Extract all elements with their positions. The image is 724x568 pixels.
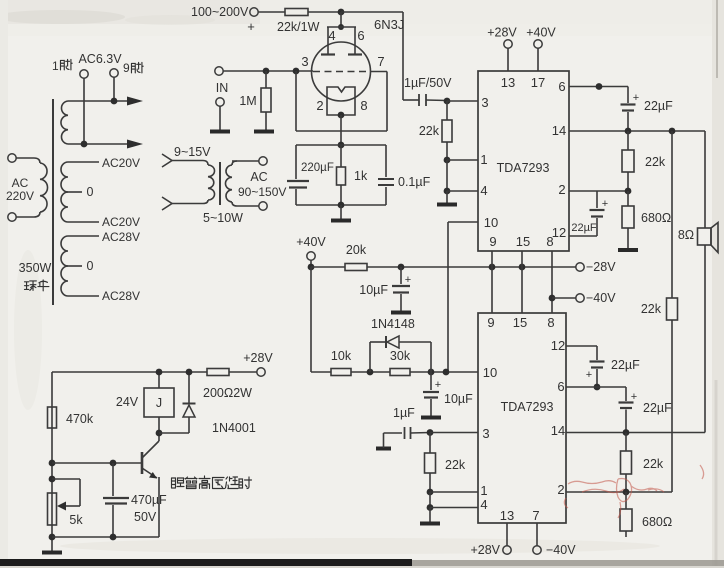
wire U2 pin12	[566, 345, 597, 347]
node heater pin1 junction	[81, 141, 88, 148]
label AC28V top	[102, 230, 140, 244]
terminal pin1 heater	[80, 70, 88, 144]
svg-text:14: 14	[552, 123, 566, 138]
label -28V	[586, 260, 616, 274]
ground 1M	[254, 130, 274, 134]
svg-text:4: 4	[328, 28, 335, 43]
label U1 pin13	[501, 75, 515, 90]
svg-text:AC28V: AC28V	[102, 289, 140, 303]
label AC20V bottom	[102, 215, 140, 229]
label 350W	[19, 261, 52, 275]
svg-text:AC: AC	[12, 176, 29, 190]
wire R1 to anode node	[308, 11, 341, 13]
transformer T2 core	[219, 162, 221, 205]
label 1N4148	[371, 317, 415, 331]
svg-text:5k: 5k	[69, 513, 83, 527]
node mute cap tap	[398, 264, 405, 271]
capacitor C10 22uF	[590, 346, 605, 387]
svg-text:AC20V: AC20V	[102, 215, 140, 229]
svg-text:6: 6	[357, 28, 364, 43]
wire AC28V center tap	[66, 265, 82, 267]
svg-text:7: 7	[377, 54, 384, 69]
wire IC2 pin1	[430, 491, 478, 493]
svg-text:12: 12	[551, 338, 565, 353]
svg-text:14: 14	[551, 423, 565, 438]
label U2 pin6	[557, 379, 564, 394]
op-amp U2 TDA7293 body	[478, 313, 566, 523]
node cathode network top	[338, 142, 345, 149]
capacitor C12 470uF	[103, 463, 129, 537]
wire U2 pin6	[566, 386, 626, 388]
label IN	[216, 81, 229, 95]
node 30k left	[367, 369, 374, 376]
transformer T1 primary terminal upper	[8, 154, 16, 162]
label huan-niu (toroid)	[24, 280, 48, 291]
tube V1 anode plates	[321, 53, 362, 55]
wire anode node to coupling	[341, 12, 419, 100]
wire cathode net bottom	[296, 204, 386, 206]
terminal +40V IC1	[534, 40, 542, 71]
ground IC1 input	[437, 203, 457, 207]
node IC1 pin4 tie	[444, 188, 451, 195]
capacitor C4 1uF/50V	[419, 94, 447, 106]
label U2 TDA7293	[501, 400, 554, 414]
label 0.1uF	[398, 175, 431, 189]
wire U1 pin6	[569, 86, 628, 88]
svg-text:TDA7293: TDA7293	[501, 400, 554, 414]
svg-text:6N3J: 6N3J	[374, 17, 404, 32]
label 100~200V	[191, 5, 249, 19]
node input junction	[263, 68, 270, 75]
label 24V	[116, 395, 139, 409]
resistor R6 10k	[331, 369, 351, 376]
svg-text:470k: 470k	[66, 412, 94, 426]
svg-text:3: 3	[482, 426, 489, 441]
resistor R8 22k IC2 input	[425, 433, 436, 492]
label jiao1 (1 pin)	[52, 59, 72, 73]
svg-text:AC28V: AC28V	[102, 230, 140, 244]
label 22k R8	[445, 458, 466, 472]
node heater pin9 junction	[111, 98, 118, 105]
red pen marks	[564, 465, 703, 518]
label plus C9	[602, 198, 608, 210]
arrow heater top	[127, 97, 143, 106]
svg-text:AC: AC	[250, 170, 267, 184]
svg-text:10k: 10k	[331, 349, 352, 363]
label U2 pin2	[557, 482, 564, 497]
svg-text:22k: 22k	[643, 457, 664, 471]
label plus C5	[405, 274, 411, 286]
speaker LS1	[698, 223, 719, 253]
label +28V IC1	[487, 26, 517, 40]
diode D1 1N4148	[370, 336, 431, 372]
svg-text:1: 1	[480, 483, 487, 498]
node cathode network bottom	[338, 202, 345, 209]
transformer T1 primary winding	[16, 158, 48, 217]
svg-text:12: 12	[552, 225, 566, 240]
resistor R5 20k	[345, 264, 367, 271]
terminal -28V	[576, 263, 584, 271]
label 22k R12	[643, 457, 664, 471]
svg-text:1: 1	[52, 59, 59, 73]
label jiao9 (9 pin)	[123, 61, 143, 75]
label pin 2	[316, 98, 323, 113]
node bridge tap	[669, 128, 676, 135]
node base rail	[49, 460, 56, 467]
transformer T2 input connector upper	[162, 154, 172, 167]
transformer T2 input connector lower	[162, 197, 172, 210]
svg-text:1k: 1k	[354, 169, 368, 183]
resistor R9 22k fb1	[622, 131, 634, 191]
wire U2 pin14 out	[566, 432, 705, 434]
label 10uF C5	[359, 283, 388, 297]
wire left rail delay	[51, 372, 53, 552]
svg-text:+: +	[633, 92, 639, 104]
label 5k	[69, 513, 83, 527]
ground 1uF input	[376, 447, 391, 451]
wire to IC2 pin3	[430, 432, 478, 434]
svg-text:−40V: −40V	[586, 291, 616, 305]
svg-text:2: 2	[558, 182, 565, 197]
svg-text:AC6.3V: AC6.3V	[78, 52, 122, 66]
wire AC28V bottom lead	[68, 295, 99, 297]
ground cathode network	[331, 219, 351, 223]
wire speaker to U2 out	[704, 245, 706, 433]
svg-text:8: 8	[360, 98, 367, 113]
transformer T2 secondary terminal lower	[259, 202, 267, 210]
svg-text:8: 8	[547, 315, 554, 330]
label 22k/1W	[277, 20, 320, 34]
svg-text:4: 4	[480, 497, 487, 512]
resistor R2 1M	[261, 71, 271, 130]
svg-text:13: 13	[501, 75, 515, 90]
svg-text:22µF: 22µF	[611, 358, 640, 372]
terminal -40V IC2	[533, 523, 541, 554]
label AC 220V	[6, 176, 34, 203]
svg-text:1N4148: 1N4148	[371, 317, 415, 331]
node -40V tap	[549, 295, 556, 302]
svg-text:10: 10	[483, 365, 497, 380]
capacitor C8 22uF bootstrap1	[621, 87, 636, 132]
label U1 pin4	[480, 183, 487, 198]
node +40V junction	[308, 264, 315, 271]
wire cathode net top	[296, 144, 386, 146]
svg-text:5~10W: 5~10W	[203, 211, 243, 225]
svg-text:24V: 24V	[116, 395, 139, 409]
svg-text:3: 3	[481, 95, 488, 110]
label 0 tap1	[87, 185, 94, 199]
wire +40V to 20k	[311, 266, 345, 268]
svg-text:3: 3	[301, 54, 308, 69]
wire AC20V bottom lead	[68, 221, 99, 223]
label plus C6	[435, 379, 441, 391]
wire collector to diode	[159, 432, 189, 434]
label J	[156, 396, 162, 410]
terminal +28V IC1	[504, 40, 512, 71]
relay J coil	[144, 372, 174, 433]
svg-text:0: 0	[87, 185, 94, 199]
svg-text:15: 15	[516, 234, 530, 249]
svg-text:8Ω: 8Ω	[678, 228, 694, 242]
svg-text:30k: 30k	[390, 349, 411, 363]
ground delay	[42, 551, 62, 555]
arrow heater bottom	[127, 140, 143, 149]
label 470uF	[131, 493, 167, 507]
wire AC28V top lead	[68, 235, 99, 237]
label U2 pin1	[480, 483, 487, 498]
node fb2 join	[623, 489, 630, 496]
label 0 tap2	[87, 259, 94, 273]
wire AC20V center tap	[66, 191, 82, 193]
svg-text:TDA7293: TDA7293	[497, 161, 550, 175]
svg-text:+: +	[247, 19, 255, 34]
label 10k	[331, 349, 352, 363]
resistor R12 22k fb2	[621, 433, 632, 493]
tube V1 6N3J envelope	[312, 42, 371, 101]
transformer T2 primary winding	[172, 161, 215, 204]
scan edge bottom bar	[0, 559, 724, 568]
label U2 pin4	[480, 497, 487, 512]
label 1k	[354, 169, 368, 183]
svg-text:+: +	[631, 391, 637, 403]
wire IN to grid	[223, 70, 313, 72]
label +28V delay	[243, 351, 273, 365]
wire heater bottom	[68, 143, 128, 145]
svg-text:9: 9	[489, 234, 496, 249]
label 1uF C7	[393, 406, 415, 420]
label 22uF C10	[611, 358, 640, 372]
svg-text:470µF: 470µF	[131, 493, 167, 507]
svg-text:J: J	[156, 396, 162, 410]
terminal pin9 heater	[110, 69, 118, 101]
resistor R13 680 ohm	[620, 492, 632, 537]
node cathode join	[338, 112, 345, 119]
wire IC1 pin4	[447, 190, 478, 192]
wire R4 down	[446, 160, 448, 191]
tube V1 cathode box	[327, 87, 355, 115]
svg-text:22k: 22k	[645, 155, 666, 169]
wire +28V rail delay	[52, 371, 207, 373]
svg-text:22k: 22k	[445, 458, 466, 472]
svg-text:0: 0	[87, 259, 94, 273]
wire U2 pin2	[566, 491, 672, 493]
node U1 pin6 dot	[596, 83, 603, 90]
wire pins15 tie	[521, 251, 523, 313]
label 22uF C11	[643, 401, 672, 415]
transformer T2 secondary winding	[225, 161, 259, 206]
label U2 pin10	[483, 365, 497, 380]
resistor R7 30k	[390, 369, 410, 376]
resistor R11 22k bridge	[667, 298, 678, 320]
wire base line	[52, 462, 141, 464]
wire pins8 tie	[551, 251, 553, 313]
transistor Q1	[142, 433, 159, 537]
svg-text:680Ω: 680Ω	[641, 211, 671, 225]
transformer T1 winding AC20V	[61, 162, 68, 222]
label U1 pin9	[489, 234, 496, 249]
svg-text:1µF: 1µF	[393, 406, 415, 420]
terminal +40V mid	[307, 252, 315, 267]
label 220uF	[301, 162, 334, 174]
label +28V IC2	[470, 543, 500, 557]
svg-text:+28V: +28V	[243, 351, 273, 365]
label 9~15V	[174, 145, 211, 159]
wire bridge down	[671, 131, 673, 298]
wire U1 pin10	[448, 222, 478, 372]
svg-text:15: 15	[513, 315, 527, 330]
svg-text:350W: 350W	[19, 261, 52, 275]
wire bridge to pin2	[671, 320, 673, 492]
capacitor C3 0.1uF cathode	[378, 145, 394, 205]
wire emitter rail	[52, 536, 159, 538]
tube V1 anode tie bar	[327, 12, 356, 54]
svg-text:0.1µF: 0.1µF	[398, 175, 431, 189]
capacitor C11 22uF bootstrap2	[619, 387, 634, 432]
svg-text:13: 13	[500, 508, 514, 523]
label U1 pin6	[558, 79, 565, 94]
ground C6	[421, 416, 441, 420]
label 20k	[346, 243, 367, 257]
svg-text:1: 1	[480, 152, 487, 167]
label 8 ohm	[678, 228, 694, 242]
wire grid tie loop	[296, 71, 387, 131]
label pin 4	[328, 28, 335, 43]
label 5~10W	[203, 211, 243, 225]
svg-text:50V: 50V	[134, 510, 157, 524]
capacitor C5 10uF mute1	[392, 267, 410, 311]
wire to -40V	[552, 297, 576, 299]
wire pins9 tie	[491, 251, 493, 313]
svg-text:10: 10	[484, 215, 498, 230]
node grid tie junction	[293, 68, 300, 75]
node relay top	[156, 369, 163, 376]
svg-text:22µF: 22µF	[644, 99, 673, 113]
svg-text:−28V: −28V	[586, 260, 616, 274]
capacitor C9 22uF pin12	[590, 191, 605, 236]
svg-text:6: 6	[558, 79, 565, 94]
label 1N4001	[212, 421, 256, 435]
terminal +28V delay	[257, 368, 265, 376]
resistor R10 680 ohm	[622, 191, 634, 248]
label U2 pin3	[482, 426, 489, 441]
transformer T1 heater winding AC6.3V	[61, 101, 68, 144]
svg-text:10µF: 10µF	[444, 392, 473, 406]
svg-text:9: 9	[123, 61, 130, 75]
label -40V IC2	[546, 543, 576, 557]
transformer T2 secondary terminal upper	[259, 157, 267, 165]
svg-text:9: 9	[487, 315, 494, 330]
node 30k right	[428, 369, 435, 376]
node anode supply	[338, 9, 345, 16]
svg-text:1M: 1M	[239, 94, 256, 108]
node stby U1 pin15	[519, 264, 526, 271]
label AC6.3V	[78, 52, 122, 66]
label pin 3	[301, 54, 308, 69]
ground C5	[391, 311, 411, 315]
node stby U1 pin9	[489, 264, 496, 271]
wire to ground IC1 input	[446, 191, 448, 203]
label 22k R4	[419, 124, 440, 138]
wire 30k right	[410, 371, 478, 373]
wire U1 pin12	[569, 235, 597, 237]
node cap470 top	[110, 460, 117, 467]
label U1 pin3	[481, 95, 488, 110]
label U1 TDA7293	[497, 161, 550, 175]
label U1 pin2	[558, 182, 565, 197]
label AC20V top	[102, 156, 140, 170]
svg-text:−40V: −40V	[546, 543, 576, 557]
svg-text:220µF: 220µF	[301, 162, 334, 174]
terminal IN signal	[215, 67, 223, 75]
label plus C8	[633, 92, 639, 104]
svg-text:220V: 220V	[6, 189, 34, 203]
label U2 pin13	[500, 508, 514, 523]
label plus C10	[586, 369, 592, 381]
node IC1 pin1 tie	[444, 157, 451, 164]
label 680 R13	[642, 515, 672, 529]
terminal -40V	[576, 294, 584, 302]
transformer T1 primary terminal lower	[8, 213, 16, 221]
label U2 pin12	[551, 338, 565, 353]
svg-text:17: 17	[531, 75, 545, 90]
label plus HV	[247, 19, 255, 34]
wire U1 pin2	[569, 190, 628, 192]
label -40V	[586, 291, 616, 305]
resistor R4 22k IC1 input	[442, 101, 452, 160]
wire 10k to 30k	[351, 371, 390, 373]
label U2 pin8	[547, 315, 554, 330]
ground R10	[618, 248, 638, 252]
label 470k	[66, 412, 94, 426]
transformer T1 winding AC28V	[61, 236, 68, 296]
wire +40V down	[311, 267, 331, 372]
label U1 pin17	[531, 75, 545, 90]
resistor R14 200ohm2W	[207, 369, 257, 376]
label U1 pin1	[480, 152, 487, 167]
node pot top tie	[49, 476, 56, 483]
label U2 pin15	[513, 315, 527, 330]
label U1 pin12	[552, 225, 566, 240]
svg-text:+40V: +40V	[526, 26, 556, 40]
ground IN	[210, 130, 230, 134]
label U1 pin14	[552, 123, 566, 138]
label U1 pin8	[546, 234, 553, 249]
node U2 pin6 dot	[594, 384, 601, 391]
label U1 pin15	[516, 234, 530, 249]
label pin 8	[360, 98, 367, 113]
node IC2 pin1 tie	[427, 489, 434, 496]
svg-text:+: +	[586, 369, 592, 381]
node C8 to out	[625, 128, 632, 135]
tube V1 grid dashed	[313, 71, 369, 73]
svg-text:22k/1W: 22k/1W	[277, 20, 320, 34]
diode D2 1N4001	[183, 372, 196, 433]
svg-text:20k: 20k	[346, 243, 367, 257]
resistor R15 470k	[48, 407, 57, 428]
label +40V IC1	[526, 26, 556, 40]
node IC1 pin3 input	[444, 98, 451, 105]
label 10uF C6	[444, 392, 473, 406]
label +40V mid	[296, 235, 326, 249]
label 680 R10	[641, 211, 671, 225]
svg-text:IN: IN	[216, 81, 229, 95]
node collector join	[156, 430, 163, 437]
label 22uF C8	[644, 99, 673, 113]
svg-text:1µF/50V: 1µF/50V	[404, 76, 452, 90]
node IC2 pin4 tie	[427, 504, 434, 511]
node pot bottom	[49, 534, 56, 541]
wire U1 pin14 out	[569, 130, 705, 132]
